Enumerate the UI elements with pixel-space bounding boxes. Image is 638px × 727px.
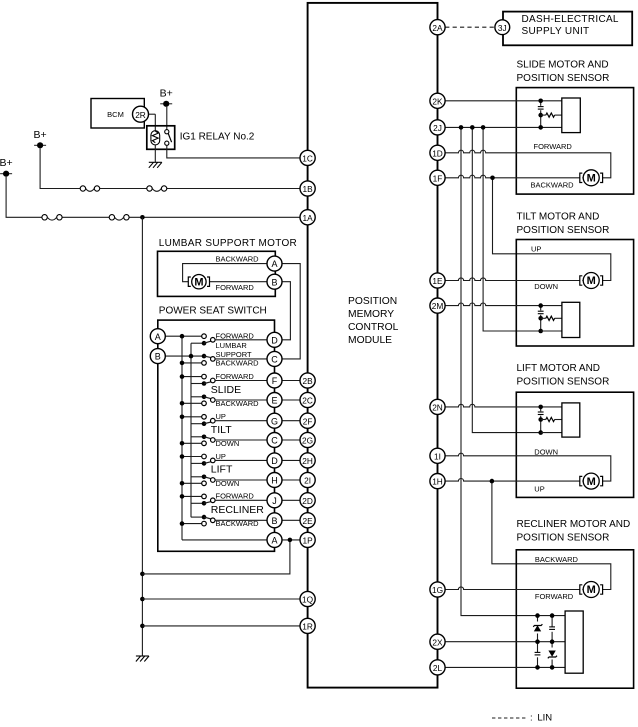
svg-text:1E: 1E [432, 276, 443, 286]
switch arm tip (slide switch 2) [211, 398, 216, 403]
terminal D (lift up) [267, 453, 282, 468]
svg-text:IG1 RELAY No.2: IG1 RELAY No.2 [180, 131, 255, 142]
switch arm pivot (lift switch 1) [202, 461, 207, 466]
BCM box [91, 99, 144, 129]
svg-text:FORWARD: FORWARD [216, 492, 255, 501]
svg-text:: LIN: : LIN [530, 713, 552, 724]
junction bus A (A row) [180, 334, 185, 339]
wire 2A to 3J (LIN, dashed) [445, 26, 495, 28]
junction (1A row) [140, 215, 145, 220]
connector 2K [430, 93, 445, 108]
connector 2C [300, 392, 315, 407]
junction 1H/recliner branch [490, 479, 495, 484]
connector 2B [300, 373, 315, 388]
wire 2J to sensor [445, 126, 562, 128]
wire bus A to lift switch top contact [182, 456, 202, 458]
svg-text:G: G [271, 416, 278, 426]
connector 1Q [300, 591, 315, 606]
svg-text:CONTROL: CONTROL [348, 322, 399, 333]
switch arm pivot (lumbar 1) [202, 341, 207, 346]
switch arm pivot (slide switch 2) [202, 395, 207, 400]
svg-text:DOWN: DOWN [216, 439, 240, 448]
svg-text:LUMBAR SUPPORT MOTOR: LUMBAR SUPPORT MOTOR [159, 238, 297, 249]
svg-text:M: M [587, 476, 596, 488]
wire 1P branch to rail [142, 540, 290, 574]
svg-text:1A: 1A [303, 213, 314, 223]
ground (relay) [149, 162, 162, 168]
switch arm (slide switch 2) [204, 397, 211, 399]
terminal G [267, 413, 282, 428]
junction 1F/tilt-up branch [490, 176, 495, 181]
svg-text:D: D [271, 335, 278, 345]
connector 2H [300, 453, 315, 468]
wire terminal C (tilt down) to module [282, 439, 300, 441]
wire relay contact to 1C [167, 145, 300, 158]
switch contact (lift switch top) [202, 454, 207, 459]
motor M (lift) [580, 473, 603, 489]
wire bus A to slide switch bottom contact [182, 402, 202, 404]
recliner motor and position sensor box [516, 550, 633, 688]
connector 2R [133, 106, 149, 122]
terminal D (lumbar fwd) [267, 332, 282, 347]
svg-text:2H: 2H [302, 456, 313, 466]
relay IG1 RELAY No.2 box [147, 126, 175, 150]
svg-text:BACKWARD: BACKWARD [535, 555, 579, 564]
junction bus A (recliner switch top) [180, 494, 185, 499]
terminal A (common) [267, 532, 282, 547]
svg-text:UP: UP [216, 452, 226, 461]
svg-text:2F: 2F [303, 416, 313, 426]
capacitor (tilt sensor) [537, 310, 544, 314]
svg-text:2B: 2B [303, 376, 314, 386]
connector 1C [300, 150, 315, 165]
wire bus B to lift switch arm 2 [191, 476, 204, 478]
wire terminal A (common) to module [282, 539, 300, 541]
svg-text:1I: 1I [434, 451, 441, 461]
switch arm pivot (tilt switch 2) [202, 435, 207, 440]
switch arm tip (slide switch 1) [211, 378, 216, 383]
svg-text:BCM: BCM [107, 110, 124, 119]
svg-text:POSITION SENSOR: POSITION SENSOR [517, 377, 610, 388]
svg-text:POSITION SENSOR: POSITION SENSOR [517, 73, 610, 84]
svg-text:E: E [271, 396, 277, 406]
svg-text:2G: 2G [302, 436, 313, 446]
connector 2M [430, 298, 445, 313]
svg-text:RECLINER MOTOR AND: RECLINER MOTOR AND [517, 519, 631, 530]
terminal A (switch supply) [150, 329, 165, 344]
switch arm tip (recliner switch 1) [211, 498, 216, 503]
wire lift switch arm 2 to terminal [215, 479, 267, 481]
connector 1D [430, 145, 445, 160]
wire bus B to slide switch arm 2 [191, 396, 204, 398]
wire lumbar arm 1 to D [215, 339, 267, 341]
lift motor and position sensor box [516, 392, 633, 497]
wire bus A to lumbar backward contact [182, 362, 202, 364]
wire 1I to lift motor [445, 453, 611, 481]
junction (A2/1P row) [288, 538, 293, 543]
wire bus A to recliner switch top contact [182, 495, 202, 497]
wire B+ to 1B [40, 148, 300, 188]
wire 2L to sensor [445, 666, 565, 668]
wire lumbar B to motor [210, 281, 268, 283]
terminal C (lumbar back) [267, 351, 282, 366]
svg-text:DOWN: DOWN [534, 282, 558, 291]
zener diode (bridge upper-left) [533, 622, 543, 634]
svg-text:MEMORY: MEMORY [348, 309, 394, 320]
svg-text:RECLINER: RECLINER [211, 504, 265, 516]
svg-text:SLIDE MOTOR AND: SLIDE MOTOR AND [517, 59, 609, 70]
B+ supply (relay) [160, 87, 173, 107]
svg-text:A: A [155, 332, 161, 342]
connector 1G [430, 582, 445, 597]
switch arm pivot (recliner switch 2) [202, 515, 207, 520]
svg-text:B: B [155, 352, 161, 362]
label SLIDE MOTOR AND POSITION SENSOR [517, 59, 610, 84]
terminal B (switch supply) [150, 349, 165, 364]
junction 2J/branch1 [459, 125, 464, 130]
svg-text:H: H [271, 476, 278, 486]
motor M (lumbar) [188, 275, 209, 289]
tilt motor and position sensor box [516, 240, 633, 347]
svg-text:TILT: TILT [211, 424, 232, 436]
svg-text:DASH-ELECTRICAL: DASH-ELECTRICAL [522, 14, 619, 25]
resistor (lift sensor) [546, 417, 555, 421]
connector 1H [430, 474, 445, 489]
wire 1H to recliner BACKWARD [492, 481, 611, 589]
svg-text:UP: UP [534, 484, 544, 493]
svg-text:LIFT MOTOR AND: LIFT MOTOR AND [517, 363, 601, 374]
ground (rail) [136, 656, 149, 662]
capacitor (bridge upper-right) [549, 627, 556, 632]
wire lumbar B to switch D [282, 282, 290, 340]
svg-text:2D: 2D [302, 496, 313, 506]
wire 1D to slide motor [445, 150, 611, 178]
svg-text:J: J [272, 496, 277, 506]
wire bus B to tilt switch arm 2 [191, 436, 204, 438]
svg-text:TILT MOTOR AND: TILT MOTOR AND [517, 211, 600, 222]
tilt position sensor network [537, 303, 562, 333]
svg-text:DOWN: DOWN [216, 479, 240, 488]
switch arm tip (tilt switch 1) [211, 418, 216, 423]
svg-text:BACKWARD: BACKWARD [531, 180, 575, 189]
wire 2X to sensor [445, 641, 565, 643]
lumbar support motor box [158, 251, 276, 296]
switch contact (lift switch bottom) [202, 481, 207, 486]
switch contact (tilt switch top) [202, 415, 207, 420]
wire terminal E to module [282, 399, 300, 401]
svg-text:F: F [272, 376, 278, 386]
B+ supply (1B) [34, 129, 47, 149]
junction bus A (slide switch top) [180, 374, 185, 379]
svg-text:POSITION SENSOR: POSITION SENSOR [517, 225, 610, 236]
wire slide switch arm 2 to terminal [215, 399, 267, 401]
wire 1F to slide motor [445, 175, 583, 178]
junction bus A (lift switch top) [180, 454, 185, 459]
svg-text:MODULE: MODULE [348, 335, 392, 346]
switch arm (lift switch 2) [204, 477, 211, 479]
switch arm pivot (lumbar 2) [202, 354, 207, 359]
wire B+ to 1A [6, 177, 300, 218]
label RECLINER MOTOR AND POSITION SENSOR [517, 519, 631, 544]
switch arm tip (lumbar 2) [211, 357, 216, 362]
svg-text:2M: 2M [432, 301, 444, 311]
switch arm (recliner switch 2) [204, 517, 211, 519]
slide sensor element [562, 98, 581, 133]
switch arm (tilt switch 2) [204, 437, 211, 439]
wire tilt switch arm 2 to terminal [215, 439, 267, 441]
wire B to lumbar arm 2 [165, 355, 204, 357]
wire 1E to tilt motor [445, 278, 583, 281]
wire bus A to recliner switch bottom contact [182, 523, 202, 525]
svg-text:C: C [271, 355, 278, 365]
connector 2D [300, 493, 315, 508]
wire terminal F to module [282, 380, 300, 382]
svg-text:SUPPLY UNIT: SUPPLY UNIT [522, 26, 590, 37]
resistor (tilt sensor) [546, 316, 555, 320]
wire bus B to recliner switch arm 1 [191, 502, 204, 504]
wire terminal J to module [282, 499, 300, 501]
junction bus B (B row) [189, 354, 194, 359]
switch contact (recliner switch bottom) [202, 521, 207, 526]
svg-text:BACKWARD: BACKWARD [216, 399, 260, 408]
svg-text:B: B [271, 516, 277, 526]
switch contact (lumbar forward) [202, 334, 207, 339]
zener diode (bridge lower-right) [547, 648, 557, 660]
svg-text:C: C [271, 436, 278, 446]
svg-text:D: D [271, 456, 278, 466]
connector 2I [300, 472, 315, 487]
wire bus B to slide switch arm 1 [191, 383, 204, 385]
switch arm pivot (slide switch 1) [202, 381, 207, 386]
wire lumbar arm 2 to C [215, 358, 267, 360]
connector 1F [430, 170, 445, 185]
svg-text:1P: 1P [303, 536, 314, 546]
motor M (tilt) [580, 273, 603, 289]
connector 1I [430, 448, 445, 463]
wire 2J branch 3 (x483.1) [483, 127, 541, 331]
switch contact (recliner switch top) [202, 494, 207, 499]
svg-text:B+: B+ [160, 87, 173, 99]
wire terminal G to module [282, 420, 300, 422]
terminal B (lumbar) [267, 274, 282, 289]
wire bus B to lumbar arm 1 [191, 342, 204, 344]
svg-text:2N: 2N [432, 403, 443, 413]
wire lumbar A to switch C [282, 264, 300, 359]
svg-text:BACKWARD: BACKWARD [216, 255, 260, 264]
switch contact (tilt switch bottom) [202, 441, 207, 446]
svg-text:1H: 1H [432, 477, 443, 487]
switch arm tip (lift switch 1) [211, 458, 216, 463]
terminal F [267, 373, 282, 388]
svg-text:A: A [271, 536, 277, 546]
wire terminal B (recliner back) to module [282, 519, 300, 521]
bridge right branch [551, 616, 553, 668]
svg-text:1R: 1R [302, 622, 313, 632]
wire bus A to slide switch top contact [182, 376, 202, 378]
switch contact (lumbar backward) [202, 361, 207, 366]
switch arm (lumbar 2) [204, 356, 211, 358]
svg-text:1G: 1G [432, 585, 443, 595]
connector 1P [300, 532, 315, 547]
switch arm pivot (recliner switch 1) [202, 501, 207, 506]
svg-text:POSITION: POSITION [348, 296, 397, 307]
junction bus A (lift switch bottom) [180, 481, 185, 486]
terminal A (lumbar) [267, 256, 282, 271]
svg-text:UP: UP [531, 244, 541, 253]
junction bus A (tilt switch top) [180, 415, 185, 420]
switch arm (lift switch 1) [204, 462, 211, 464]
junction (rail/1Q) [140, 597, 145, 602]
wire 1F to tilt UP [493, 178, 611, 281]
motor M (recliner) [580, 582, 603, 598]
recliner sensor element [565, 611, 583, 673]
switch arm tip (tilt switch 2) [211, 438, 216, 443]
relay contact [165, 130, 172, 146]
wire bus B to recliner switch arm 2 [191, 516, 204, 518]
in-line connector (1B row, right) [147, 186, 167, 192]
switch contact (slide switch bottom) [202, 401, 207, 406]
wire terminal H to module [282, 479, 300, 481]
svg-text:2X: 2X [432, 637, 443, 647]
junction bus A (lumbar backward) [180, 361, 185, 366]
connector 3J [495, 20, 510, 35]
wire rail to 1Q [142, 598, 300, 600]
connector 2G [300, 432, 315, 447]
connector 2J [430, 120, 445, 135]
wire bus A to tilt switch bottom contact [182, 442, 202, 444]
svg-text:1F: 1F [433, 173, 443, 183]
switch contact (slide switch top) [202, 374, 207, 379]
junction 2J/branch3 [481, 125, 486, 130]
connector 2L [430, 660, 445, 675]
switch arm (recliner switch 1) [204, 502, 211, 504]
svg-text:M: M [587, 173, 596, 185]
junction 2J/branch2 [470, 125, 475, 130]
svg-text:FORWARD: FORWARD [535, 592, 574, 601]
wire A to lumbar-switch contact [165, 335, 201, 337]
wire bus B (switch common B) [190, 343, 192, 517]
svg-text:1C: 1C [302, 154, 313, 164]
wire 2M to sensor [445, 303, 562, 306]
wire 2R to relay coil [149, 113, 156, 115]
wire 2K to sensor [445, 100, 562, 102]
terminal E [267, 393, 282, 408]
connector 2F [300, 413, 315, 428]
wire bus A to tilt switch top contact [182, 416, 202, 418]
connector 1A [300, 210, 315, 225]
junction (rail/1P branch) [140, 572, 145, 577]
switch arm pivot (tilt switch 1) [202, 421, 207, 426]
label TILT MOTOR AND POSITION SENSOR [517, 211, 610, 236]
svg-text:SLIDE: SLIDE [211, 384, 241, 396]
power seat switch box [158, 320, 275, 551]
svg-text:2E: 2E [303, 516, 314, 526]
capacitor (bridge lower-left) [534, 652, 541, 657]
wire 2J branch 2 (x472.3) [472, 127, 540, 432]
recliner position sensor bridge [533, 613, 565, 669]
switch arm (slide switch 1) [204, 382, 211, 384]
wire slide switch arm 1 to terminal [215, 380, 267, 382]
svg-text:FORWARD: FORWARD [216, 283, 255, 292]
svg-text:2K: 2K [432, 96, 443, 106]
svg-text:M: M [194, 276, 203, 288]
connector 1R [300, 618, 315, 633]
svg-text:FORWARD: FORWARD [216, 331, 255, 340]
switch arm tip (recliner switch 2) [211, 518, 216, 523]
wire bus B to tilt switch arm 1 [191, 423, 204, 425]
svg-text:B: B [271, 277, 277, 287]
tilt sensor element [562, 302, 580, 337]
wire bus A to terminal A2 [182, 539, 267, 541]
connector 2A [430, 20, 445, 35]
position memory control module box U1 [308, 3, 438, 688]
label LIFT MOTOR AND POSITION SENSOR [517, 363, 610, 388]
svg-text:UP: UP [216, 412, 226, 421]
motor M (slide) [580, 170, 603, 186]
wire bus A (switch common A) [181, 336, 183, 540]
bridge left branch [537, 616, 539, 668]
wire 2N to sensor [445, 404, 562, 407]
resistor (slide sensor) [546, 113, 555, 117]
switch arm pivot (lift switch 2) [202, 475, 207, 480]
svg-text:2C: 2C [302, 396, 313, 406]
connector 2E [300, 513, 315, 528]
legend LIN dashed [492, 717, 526, 719]
wire bus A to lift switch bottom contact [182, 482, 202, 484]
svg-text:POSITION SENSOR: POSITION SENSOR [517, 532, 610, 543]
wire tilt switch arm 1 to terminal [215, 420, 267, 422]
in-line connector (1A row, right) [109, 215, 129, 221]
wire rail to 1R [142, 625, 300, 627]
svg-text:B+: B+ [34, 129, 47, 141]
svg-text:3J: 3J [498, 23, 507, 33]
svg-text:2I: 2I [304, 476, 311, 486]
svg-text:BACKWARD: BACKWARD [216, 519, 260, 528]
junction bus A (recliner switch bottom) [180, 521, 185, 526]
wire relay coil to ground [154, 145, 156, 162]
svg-text:1D: 1D [432, 148, 443, 158]
svg-text:1Q: 1Q [302, 595, 314, 605]
capacitor (slide sensor) [537, 106, 544, 110]
svg-text:2L: 2L [433, 663, 443, 673]
svg-text:2A: 2A [432, 23, 443, 33]
wire terminal D (lift up) to module [282, 459, 300, 461]
svg-text:POWER SEAT SWITCH: POWER SEAT SWITCH [159, 306, 267, 317]
switch arm (tilt switch 1) [204, 422, 211, 424]
junction (rail/1R) [140, 624, 145, 629]
svg-text:DOWN: DOWN [534, 447, 558, 456]
wire B+ to relay contact [166, 107, 168, 132]
svg-text:M: M [587, 275, 596, 287]
svg-text:B+: B+ [0, 157, 13, 169]
wire 1G to recliner motor [445, 587, 583, 590]
switch arm tip (lumbar 1) [211, 338, 216, 343]
slide motor and position sensor box [516, 88, 633, 195]
wire recliner switch arm 2 to terminal [215, 519, 267, 521]
svg-text:LUMBAR: LUMBAR [216, 341, 248, 350]
in-line connector (1B row, left) [80, 186, 100, 192]
connector 2N [430, 399, 445, 414]
wire lumbar A to motor [183, 264, 267, 282]
junction bus A (tilt switch bottom) [180, 441, 185, 446]
lift sensor element [562, 403, 580, 437]
switch arm (lumbar 1) [204, 341, 211, 343]
terminal H [267, 473, 282, 488]
lift position sensor network [537, 405, 562, 435]
terminal B (recliner back) [267, 513, 282, 528]
B+ supply (1A) [0, 157, 13, 177]
wire 2J branch 1 (x461) [461, 127, 538, 615]
